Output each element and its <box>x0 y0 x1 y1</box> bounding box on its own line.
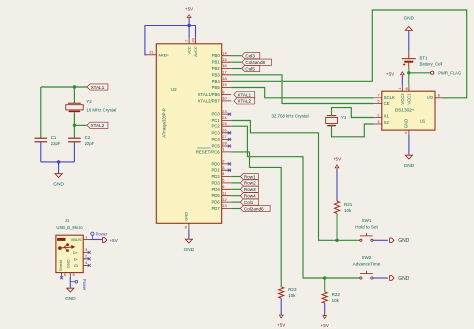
svg-text:GND: GND <box>184 212 189 221</box>
svg-text:SCLK: SCLK <box>384 95 395 100</box>
wire PD7 to Col2and6 <box>231 208 240 210</box>
wire Y1 bottom to U1 X2 <box>332 124 374 137</box>
svg-text:BT1: BT1 <box>420 55 428 60</box>
power +5V (below R22) <box>324 314 326 316</box>
hierarchical label GND (SW2) <box>390 276 394 281</box>
wire to PWR_FLAG <box>409 72 431 74</box>
hierarchical label +5V (VBUS) <box>102 238 106 243</box>
svg-text:GND: GND <box>404 163 415 169</box>
switch SW1 <box>360 239 362 241</box>
svg-text:XTAL1: XTAL1 <box>237 92 251 97</box>
svg-text:PB3: PB3 <box>212 72 221 77</box>
switch SW2 <box>360 277 362 279</box>
U2 RESET overline <box>197 147 211 149</box>
wire to +5V symbol <box>188 19 190 26</box>
svg-text:6: 6 <box>438 94 440 98</box>
wire +5V to R21 (blue) <box>336 169 338 201</box>
svg-text:Power: Power <box>82 279 87 291</box>
svg-text:4: 4 <box>85 261 87 265</box>
U2 pin 8 GND (bottom) <box>188 223 190 229</box>
svg-text:PC5: PC5 <box>211 144 220 149</box>
svg-text:+5V: +5V <box>321 323 330 328</box>
no-connect J1 D- <box>88 257 91 260</box>
svg-text:AdvanceTime: AdvanceTime <box>353 261 381 266</box>
svg-text:AVCC: AVCC <box>193 46 198 57</box>
global label XTAL2 (left) <box>87 122 108 128</box>
global label Row3 <box>240 186 258 192</box>
wire PD5 to Row4 <box>231 195 240 197</box>
wire PB4 to U1 I/O (top loop) <box>231 10 466 98</box>
wire U2 GND to ground (blue) <box>188 229 190 239</box>
svg-text:PB0: PB0 <box>212 53 221 58</box>
svg-text:32.768 kHz Crystal: 32.768 kHz Crystal <box>271 114 308 119</box>
svg-text:J1: J1 <box>65 218 70 223</box>
svg-text:Row1: Row1 <box>244 174 256 179</box>
svg-text:11: 11 <box>222 190 226 195</box>
svg-text:D-: D- <box>74 256 79 261</box>
svg-text:Shield: Shield <box>58 260 63 271</box>
U1 top pins 1 VCC2, 8 VCC1 <box>402 85 409 91</box>
no-connect PD1 <box>228 169 231 172</box>
global label Col1 <box>240 199 258 205</box>
svg-text:PD4: PD4 <box>211 187 220 192</box>
hierarchical label GND (SW1) <box>390 238 394 243</box>
wire C2 to ground rail (blue) <box>73 142 75 162</box>
PWR_FLAG (J1 VBUS) <box>91 232 94 235</box>
wire PD3 to Row2 <box>231 182 240 184</box>
svg-text:16 MHz Crystal: 16 MHz Crystal <box>86 107 116 112</box>
svg-text:CE: CE <box>384 101 390 106</box>
U1 left pins 7 SCLK, 5 CE, 2 X1, 3 X2 <box>374 98 382 124</box>
resistor R23 <box>279 287 284 298</box>
svg-text:PB5: PB5 <box>212 85 221 90</box>
wire PB5 to U1 SCLK <box>231 88 373 98</box>
svg-text:XTAL1: XTAL1 <box>91 85 105 90</box>
svg-text:19: 19 <box>222 82 226 87</box>
capacitor C1 <box>35 138 48 142</box>
resistor R21 <box>334 201 339 213</box>
svg-text:2: 2 <box>85 255 87 259</box>
IC U1 DS1302 body <box>382 91 435 130</box>
svg-text:GND: GND <box>184 247 195 253</box>
battery BT1 <box>402 58 416 60</box>
svg-text:5: 5 <box>222 178 224 183</box>
svg-text:Row3: Row3 <box>244 187 256 192</box>
junction ground rail <box>57 160 60 163</box>
PWR_FLAG (battery) <box>431 71 434 74</box>
svg-text:Hold to Set: Hold to Set <box>355 224 378 229</box>
power +5V (top, U2) <box>188 18 190 20</box>
svg-text:27: 27 <box>222 134 226 139</box>
svg-text:R22: R22 <box>332 292 341 297</box>
wire PB3 to U1 CE <box>231 75 373 104</box>
IC U2 ATmega328P-P microcontroller body <box>156 44 221 224</box>
wire ground rail (blue) <box>41 161 75 163</box>
wire R22 to +5V (blue) <box>324 303 326 314</box>
J1 bottom pins 6 Shield, 5 GND <box>62 273 71 278</box>
global label XTAL1 (left) <box>87 84 108 90</box>
svg-text:6: 6 <box>64 273 66 277</box>
svg-text:RESET/PC6: RESET/PC6 <box>196 149 220 154</box>
svg-text:4: 4 <box>405 131 407 135</box>
svg-text:VCC1: VCC1 <box>407 93 412 105</box>
wire U1 GND to ground (blue) <box>408 135 410 155</box>
power +5V (above R21) <box>336 168 338 170</box>
wire PC1 to SW1 <box>231 121 360 241</box>
svg-text:VCC2: VCC2 <box>400 93 405 105</box>
svg-text:PD2: PD2 <box>211 174 220 179</box>
J1 USB icon <box>57 238 65 241</box>
svg-text:PC2: PC2 <box>211 124 220 129</box>
svg-text:22pF: 22pF <box>51 141 61 146</box>
svg-text:16: 16 <box>222 63 226 68</box>
U1 bottom pin 4 GND <box>408 130 410 135</box>
svg-text:28: 28 <box>222 141 226 146</box>
svg-text:9: 9 <box>222 89 224 94</box>
junction R22/SW2 <box>323 276 326 279</box>
svg-text:Col5: Col5 <box>245 66 255 71</box>
svg-text:X2: X2 <box>384 120 390 125</box>
no-connect PC5 <box>228 145 231 148</box>
wire SW2 to GND label (blue) <box>373 277 388 279</box>
wire SW1 to GND label (blue) <box>373 239 388 241</box>
svg-text:Power: Power <box>96 231 108 236</box>
wire PD6 to Col1 <box>231 201 240 203</box>
resistor R22 <box>322 292 327 303</box>
global label Row1 <box>240 173 258 179</box>
svg-text:1: 1 <box>398 87 402 89</box>
global label Col5 <box>242 65 260 71</box>
wire R21 to SW1 node <box>336 213 338 240</box>
junction XTAL2 node <box>73 124 76 127</box>
svg-text:3: 3 <box>377 120 379 124</box>
svg-text:GND: GND <box>403 15 414 21</box>
svg-text:+5V: +5V <box>333 157 342 162</box>
svg-text:C1: C1 <box>51 135 57 140</box>
junction battery/PWR_FLAG <box>407 71 410 74</box>
svg-text:VCC: VCC <box>187 46 192 54</box>
svg-text:21: 21 <box>149 51 153 55</box>
svg-text:PB1: PB1 <box>212 60 221 65</box>
no-connect J1 D+ <box>88 251 91 254</box>
wire PB2 to Col5 <box>231 68 242 70</box>
wire PD4 to Row3 <box>231 188 240 190</box>
svg-text:SW2: SW2 <box>362 255 372 260</box>
global label Col3 <box>242 53 260 59</box>
svg-text:PC0: PC0 <box>211 112 220 117</box>
wire RESET/PC6 to R23 <box>231 152 281 287</box>
svg-text:PD0: PD0 <box>211 161 220 166</box>
battery BT1 bottom pin <box>408 63 410 68</box>
svg-text:R23: R23 <box>288 287 297 292</box>
svg-text:3: 3 <box>222 165 224 170</box>
svg-text:12: 12 <box>222 197 226 202</box>
svg-text:3: 3 <box>85 248 87 252</box>
svg-text:DS1302+: DS1302+ <box>395 108 415 113</box>
svg-text:XTAL2: XTAL2 <box>237 99 251 104</box>
svg-text:22pF: 22pF <box>85 141 95 146</box>
wire to Y2 top <box>73 87 75 103</box>
svg-text:18: 18 <box>222 76 226 81</box>
U2 pin 21 AREF (left) <box>147 54 157 56</box>
svg-text:Col3: Col3 <box>245 54 255 59</box>
PWR_FLAG (J1 GND) <box>70 281 75 283</box>
junction XTAL1 node <box>73 85 76 88</box>
svg-text:20: 20 <box>191 38 195 42</box>
svg-text:10k: 10k <box>344 208 352 213</box>
svg-text:7: 7 <box>377 94 379 98</box>
svg-text:SW1: SW1 <box>362 218 372 223</box>
ground (below J1) <box>67 288 74 292</box>
wire C1 to ground rail (blue) <box>40 142 42 162</box>
wire left vertical to C1 <box>40 87 42 138</box>
wire +5V to VCC2 (blue) <box>401 76 403 85</box>
svg-text:8: 8 <box>405 87 409 89</box>
wire to ground symbol <box>58 162 60 174</box>
svg-text:PB2: PB2 <box>212 66 221 71</box>
wire PB1 to Col4and8 <box>231 61 242 63</box>
U2 right-side pins <box>222 56 232 209</box>
svg-text:ATmega328P-P: ATmega328P-P <box>161 108 166 138</box>
svg-text:X1: X1 <box>384 114 390 119</box>
no-connect PC3 <box>228 131 231 134</box>
svg-text:17: 17 <box>222 70 226 75</box>
wire J1 GND to ground (blue) <box>69 277 71 288</box>
svg-text:D+: D+ <box>73 250 79 255</box>
svg-text:PC1: PC1 <box>211 118 220 123</box>
global label XTAL1 (at U2) <box>234 92 255 98</box>
svg-text:+5V: +5V <box>109 238 118 244</box>
svg-text:1: 1 <box>222 147 224 152</box>
svg-text:7: 7 <box>185 40 189 42</box>
U2 pins 7 VCC and 20 AVCC (top) <box>189 37 195 43</box>
svg-text:+5V: +5V <box>185 6 194 11</box>
svg-text:Row4: Row4 <box>244 194 256 199</box>
wire to U1 VCC1 pin <box>408 73 410 85</box>
svg-text:PD6: PD6 <box>211 200 220 205</box>
svg-text:PB4: PB4 <box>212 79 221 84</box>
svg-text:Y2: Y2 <box>86 99 92 104</box>
svg-text:+5V: +5V <box>277 322 286 327</box>
crystal Y2 <box>68 102 81 104</box>
wire VCC drop (blue) <box>188 26 190 38</box>
svg-text:8: 8 <box>185 225 187 229</box>
no-connect J1 ID <box>88 264 91 267</box>
global label Row4 <box>240 193 258 199</box>
svg-text:GND: GND <box>65 296 76 302</box>
svg-text:25: 25 <box>222 121 226 126</box>
svg-text:C2: C2 <box>85 135 91 140</box>
ground (top, battery) <box>405 27 412 31</box>
svg-text:Row2: Row2 <box>244 181 256 186</box>
ground (left crystal circuit) <box>55 174 62 178</box>
svg-text:15: 15 <box>222 57 226 62</box>
wire battery to VCC1 node <box>408 68 410 73</box>
svg-text:5: 5 <box>377 99 379 103</box>
ground (below U2) <box>185 239 192 243</box>
svg-text:U1: U1 <box>420 118 426 123</box>
wire XTAL1 net horizontal <box>41 86 87 88</box>
svg-text:GND: GND <box>404 119 409 128</box>
svg-text:GND: GND <box>398 238 410 244</box>
svg-text:I/O: I/O <box>427 95 433 100</box>
svg-text:PC4: PC4 <box>211 137 220 142</box>
J1 pins 3 D+, 2 D-, 4 ID <box>83 252 89 265</box>
svg-text:R21: R21 <box>344 202 353 207</box>
junction R21/SW1 <box>335 239 338 242</box>
no-connect J1 Shield <box>60 276 63 279</box>
global label Row2 <box>240 180 258 186</box>
svg-text:PC3: PC3 <box>211 130 220 135</box>
global label Col4and8 <box>242 59 272 65</box>
svg-text:13: 13 <box>222 203 226 208</box>
wire <box>89 239 102 241</box>
svg-text:PD3: PD3 <box>211 180 220 185</box>
wire Y1 top to U1 X1 <box>332 108 374 118</box>
svg-text:1: 1 <box>85 235 87 239</box>
svg-text:GND: GND <box>53 182 64 188</box>
svg-text:10k: 10k <box>332 298 340 303</box>
svg-text:USB_B_Micro: USB_B_Micro <box>56 225 83 230</box>
svg-text:GND: GND <box>398 276 410 282</box>
svg-text:PWR_FLAG: PWR_FLAG <box>438 70 461 75</box>
power +5V (below R23) <box>280 313 282 315</box>
svg-text:ID: ID <box>74 263 78 268</box>
svg-text:10k: 10k <box>288 293 296 298</box>
J1 pin 1 VBUS <box>83 239 89 241</box>
wire AREF-VCC-AVCC power loop (blue) <box>145 26 196 55</box>
global label XTAL2 (at U2) <box>234 98 255 104</box>
svg-text:23: 23 <box>222 109 226 114</box>
wire to XTAL2 label <box>74 124 87 126</box>
svg-text:XTAL2: XTAL2 <box>91 123 105 128</box>
svg-text:VBUS: VBUS <box>71 237 82 242</box>
no-connect PC4 <box>228 138 231 141</box>
svg-text:AREF: AREF <box>158 52 169 57</box>
svg-text:U2: U2 <box>171 87 177 92</box>
wire R23 to +5V (blue) <box>280 298 282 314</box>
svg-text:Col2and6: Col2and6 <box>244 206 264 211</box>
svg-text:6: 6 <box>222 184 224 189</box>
svg-text:XTAL1/PB6: XTAL1/PB6 <box>198 92 221 97</box>
ground (below U1) <box>405 155 412 159</box>
no-connect PD0 <box>228 162 231 165</box>
svg-text:PD1: PD1 <box>211 168 220 173</box>
wire SW2 node to R22 <box>324 278 326 292</box>
wire top ground to battery (blue) <box>408 30 410 50</box>
no-connect PC0 <box>228 113 231 116</box>
battery BT1 top pin <box>408 51 410 59</box>
wire PB0 to Col3 <box>231 55 242 57</box>
capacitor C2 <box>68 138 81 142</box>
global label Col2and6 <box>240 205 270 211</box>
power +5V (at U1 VCC2) <box>401 75 403 77</box>
svg-text:PD5: PD5 <box>211 193 220 198</box>
svg-text:2: 2 <box>222 159 224 164</box>
junction VCC +5V <box>187 24 190 27</box>
svg-text:26: 26 <box>222 128 226 133</box>
svg-text:Battery_Cell: Battery_Cell <box>420 61 443 66</box>
wire XTAL2 node to C2 <box>73 125 75 138</box>
crystal Y1 <box>327 115 336 117</box>
svg-text:+5V: +5V <box>386 72 395 77</box>
svg-text:2: 2 <box>377 113 379 117</box>
connector J1 USB_B_Micro body <box>56 235 83 272</box>
svg-text:Y1: Y1 <box>341 115 347 120</box>
wire PC2 to SW2 <box>231 126 360 278</box>
U1 right pin 6 I/O <box>435 97 443 99</box>
svg-text:Col1: Col1 <box>244 200 254 205</box>
svg-text:XTAL2/PB7: XTAL2/PB7 <box>198 98 221 103</box>
svg-text:PD7: PD7 <box>211 206 220 211</box>
svg-text:5: 5 <box>73 273 75 277</box>
svg-text:Col4and8: Col4and8 <box>245 60 265 65</box>
wire PD2 to Row1 <box>231 176 240 178</box>
svg-text:GND: GND <box>65 259 70 268</box>
wire Y2 bottom to XTAL2 node <box>73 112 75 125</box>
